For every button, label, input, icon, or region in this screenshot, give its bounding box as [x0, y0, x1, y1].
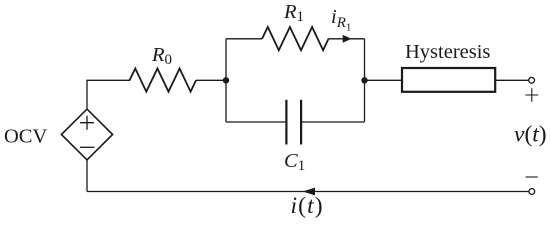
- wire left riser of RC pair: [225, 39, 227, 122]
- minus sign inside OCV: [80, 146, 95, 148]
- current arrow iR1: [343, 35, 352, 43]
- capacitor C1: [286, 100, 301, 145]
- wire top branch to R1: [226, 38, 262, 40]
- wire OCV bottom to return wire: [86, 160, 88, 192]
- svg-text:Hysteresis: Hysteresis: [405, 41, 490, 63]
- hysteresis block: [402, 68, 495, 92]
- resistor R1: [262, 27, 329, 50]
- svg-text:R1: R1: [283, 1, 304, 25]
- wire R1 to right riser: [329, 38, 365, 40]
- wire from OCV top to R0: [87, 80, 130, 110]
- minus sign at terminal: [526, 176, 538, 178]
- svg-text:i(t): i(t): [291, 193, 324, 219]
- wire node B to hysteresis box: [365, 79, 403, 81]
- current arrow i(t): [303, 188, 315, 196]
- wire right riser of RC pair: [364, 39, 366, 122]
- plus sign inside OCV: [80, 116, 94, 130]
- svg-text:R0: R0: [151, 44, 172, 68]
- wire box to positive terminal: [495, 79, 528, 81]
- svg-text:iR1: iR1: [331, 6, 351, 34]
- node A junction dot: [223, 77, 229, 83]
- bottom return wire: [87, 191, 529, 193]
- negative terminal circle: [529, 189, 535, 195]
- svg-text:v(t): v(t): [514, 122, 547, 148]
- node B junction dot: [361, 77, 367, 83]
- plus sign at terminal: [525, 88, 538, 101]
- wire bottom branch left to capacitor: [226, 121, 286, 123]
- resistor R0: [130, 69, 197, 92]
- OCV dependent source diamond: [61, 109, 112, 160]
- svg-text:OCV: OCV: [4, 126, 47, 148]
- svg-text:C1: C1: [284, 150, 305, 174]
- wire R0 to node A: [196, 79, 226, 81]
- wire capacitor to right riser: [301, 121, 364, 123]
- positive terminal circle: [529, 77, 535, 83]
